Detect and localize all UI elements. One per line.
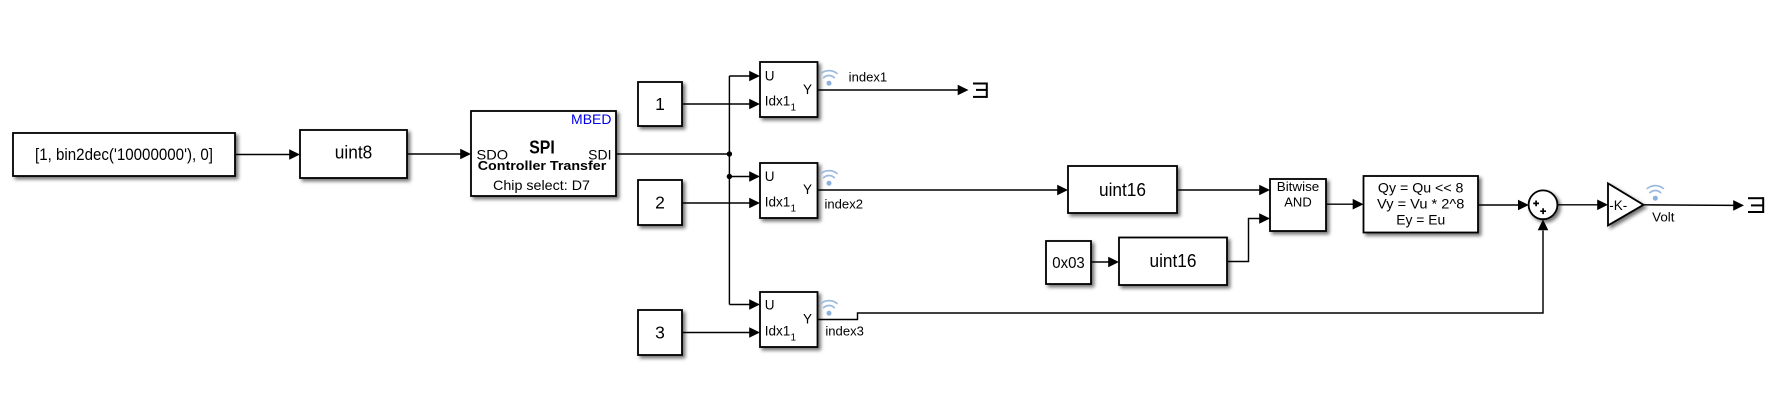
svg-text:U: U	[765, 69, 775, 84]
svg-text:1: 1	[791, 102, 797, 113]
wire bitwise AND to Qy block	[1326, 199, 1364, 210]
svg-text:MBED: MBED	[571, 111, 611, 127]
svg-text:3: 3	[655, 323, 665, 343]
wire selector2 Y to uint16a	[818, 185, 1069, 196]
wire Qy to sum	[1478, 200, 1529, 211]
svg-text:Chip select: D7: Chip select: D7	[493, 177, 590, 193]
svg-text:1: 1	[791, 203, 797, 214]
svg-text:-K-: -K-	[1609, 198, 1627, 213]
wire branch to selector2 U	[729, 171, 760, 182]
wifi badge gain	[1647, 186, 1663, 201]
constant block C1 value 1	[638, 82, 682, 126]
wifi badge selector3	[821, 301, 837, 316]
selector block S2	[760, 163, 818, 218]
constant block 0x03	[1046, 241, 1091, 284]
wire K1 to uint8	[235, 149, 300, 160]
wire SPI SDI output to branch	[616, 153, 729, 155]
terminator T2	[1748, 197, 1763, 213]
scaling block Qy	[1364, 176, 1479, 233]
svg-text:Qy = Qu << 8: Qy = Qu << 8	[1378, 179, 1464, 195]
svg-text:AND: AND	[1284, 195, 1311, 210]
svg-text:Volt: Volt	[1652, 210, 1675, 225]
bitwise AND block	[1270, 179, 1326, 231]
constant block C3 value 3	[638, 310, 682, 355]
svg-text:Idx1: Idx1	[765, 93, 791, 108]
wire C2 to selector2 Idx1	[682, 198, 760, 209]
svg-text:Ey = Eu: Ey = Eu	[1396, 211, 1445, 227]
svg-text:Vy = Vu * 2^8: Vy = Vu * 2^8	[1377, 195, 1465, 211]
svg-text:uint16: uint16	[1099, 180, 1146, 200]
wire branch to selector3 U	[729, 299, 760, 310]
selector block S3	[760, 292, 818, 347]
svg-text:U: U	[765, 169, 775, 184]
wifi badge selector2	[821, 171, 837, 186]
wire branch to selector1 U	[729, 71, 760, 82]
svg-text:index1: index1	[849, 70, 888, 85]
svg-text:uint16: uint16	[1150, 251, 1197, 271]
branch vertical wire	[728, 76, 730, 305]
svg-text:uint8: uint8	[335, 143, 373, 163]
svg-text:Y: Y	[803, 82, 812, 97]
constant block C2 value 2	[638, 180, 682, 225]
data type conversion uint16b	[1119, 238, 1227, 286]
wire uint16b to bitwise AND lower input	[1227, 213, 1270, 261]
svg-text:[1, bin2dec('10000000'), 0]: [1, bin2dec('10000000'), 0]	[35, 145, 213, 164]
svg-text:Idx1: Idx1	[765, 194, 791, 209]
wire selector1 Y to terminator T1	[818, 85, 969, 96]
constant block K1 [1, bin2dec('10000000'), 0]	[13, 133, 235, 176]
wire selector3 Y to sum bottom input	[818, 219, 1549, 319]
svg-text:SPI: SPI	[529, 138, 555, 158]
svg-text:Bitwise: Bitwise	[1277, 179, 1320, 194]
svg-text:Y: Y	[803, 182, 812, 197]
svg-text:2: 2	[655, 193, 665, 213]
svg-text:U: U	[765, 298, 775, 313]
wire C1 to selector1 Idx1	[682, 99, 760, 110]
wire C3 to selector3 Idx1	[682, 327, 760, 338]
svg-text:1: 1	[791, 332, 797, 343]
svg-text:0x03: 0x03	[1052, 255, 1085, 272]
svg-text:1: 1	[655, 94, 665, 114]
gain block -K-	[1608, 183, 1644, 225]
svg-text:Idx1: Idx1	[765, 323, 791, 338]
junction dot branch to selector2	[727, 174, 732, 179]
svg-text:index3: index3	[825, 324, 864, 339]
sum block	[1529, 190, 1558, 219]
wire gain to terminator T2	[1644, 200, 1745, 211]
data type conversion uint16a	[1068, 166, 1177, 213]
terminator T1	[973, 83, 987, 98]
wire uint8 to SPI	[407, 149, 471, 160]
wifi badge selector1	[821, 71, 837, 86]
junction dot on SDI wire	[727, 151, 732, 156]
wire sum to gain	[1557, 200, 1608, 211]
SPI Controller Transfer block U1	[471, 111, 616, 196]
svg-text:Y: Y	[803, 312, 812, 327]
data type conversion uint8	[300, 130, 407, 178]
svg-text:index2: index2	[825, 196, 864, 211]
wire uint16a to bitwise AND upper input	[1177, 185, 1270, 196]
wire 0x03 to uint16b	[1091, 257, 1119, 268]
selector block S1	[760, 62, 818, 117]
svg-text:Controller Transfer: Controller Transfer	[478, 158, 607, 173]
